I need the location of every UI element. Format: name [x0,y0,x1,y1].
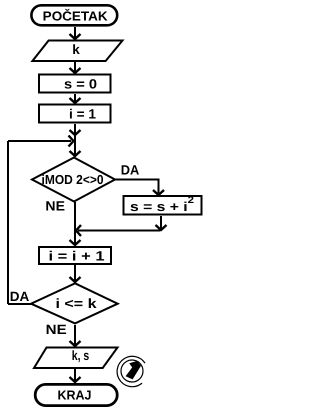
svg-text:DA: DA [10,289,30,304]
svg-text:i <= k: i <= k [56,296,98,311]
svg-text:i = 1: i = 1 [69,106,96,121]
svg-text:NE: NE [45,199,65,214]
svg-text:KRAJ: KRAJ [58,388,92,403]
svg-text:k, s: k, s [72,348,90,363]
svg-text:POČETAK: POČETAK [43,9,109,24]
svg-text:k: k [72,42,80,57]
svg-text:s = 0: s = 0 [64,77,97,92]
svg-text:i = i + 1: i = i + 1 [49,249,106,264]
svg-text:iMOD 2<>0: iMOD 2<>0 [42,172,104,187]
svg-text:DA: DA [121,163,140,178]
svg-text:NE: NE [46,322,67,337]
